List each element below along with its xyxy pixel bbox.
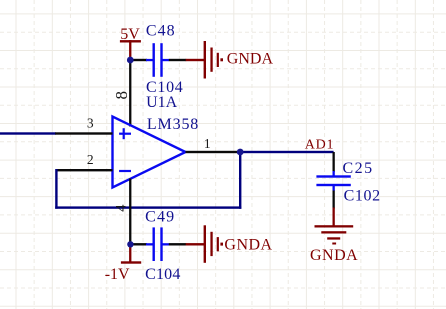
pin of C25 lower — [333, 191, 335, 209]
svg-text:C49: C49 — [145, 209, 175, 226]
pin 1 of U1A output — [186, 151, 241, 153]
svg-text:LM358: LM358 — [147, 116, 199, 133]
pin 3 of U1A — [55, 132, 112, 134]
pin 8 of U1A — [129, 60, 131, 127]
feedback wire up to output junction — [239, 152, 241, 209]
junction node V+ — [127, 57, 134, 64]
svg-text:C102: C102 — [344, 187, 381, 204]
power port 5V — [120, 40, 141, 60]
svg-text:C104: C104 — [145, 266, 180, 283]
op-amp U1A triangle — [113, 117, 186, 188]
ground GNDA bottom — [186, 225, 223, 262]
op-amp minus marker — [119, 170, 131, 172]
power port -1V — [121, 244, 141, 264]
op-amp plus marker — [119, 128, 131, 139]
svg-text:GNDA: GNDA — [224, 236, 272, 253]
feedback wire bottom horizontal — [55, 206, 241, 208]
pin 4 of U1A — [129, 179, 131, 245]
svg-text:GNDA: GNDA — [310, 247, 358, 264]
pin of C48 to ground — [169, 59, 186, 61]
svg-text:U1A: U1A — [146, 94, 178, 111]
pin of C49 to ground — [169, 243, 186, 245]
svg-text:5V: 5V — [120, 26, 140, 43]
feedback wire down from pin 2 — [55, 169, 57, 209]
wire junction to C49 — [130, 243, 148, 245]
output wire to AD1 — [240, 151, 333, 153]
svg-text:-1V: -1V — [105, 266, 130, 283]
ground GNDA top — [186, 41, 223, 79]
junction node output — [237, 149, 244, 156]
svg-text:AD1: AD1 — [305, 138, 335, 153]
pin 2 of U1A — [56, 169, 112, 171]
wire junction to C48 — [130, 59, 148, 61]
svg-text:3: 3 — [87, 115, 94, 130]
capacitor C49 — [146, 227, 169, 261]
ground GNDA earth style — [315, 208, 354, 245]
svg-text:4: 4 — [114, 204, 130, 212]
svg-text:2: 2 — [87, 152, 94, 167]
svg-text:GNDA: GNDA — [227, 51, 274, 68]
svg-text:8: 8 — [112, 91, 131, 100]
svg-text:C25: C25 — [343, 160, 374, 177]
pin of C25 upper — [333, 152, 335, 172]
input wire to pin 3 — [0, 132, 56, 134]
capacitor C48 — [146, 43, 169, 77]
svg-text:C48: C48 — [146, 23, 176, 40]
svg-text:1: 1 — [204, 136, 211, 151]
junction node V- — [127, 241, 133, 247]
capacitor C25 — [316, 171, 350, 191]
